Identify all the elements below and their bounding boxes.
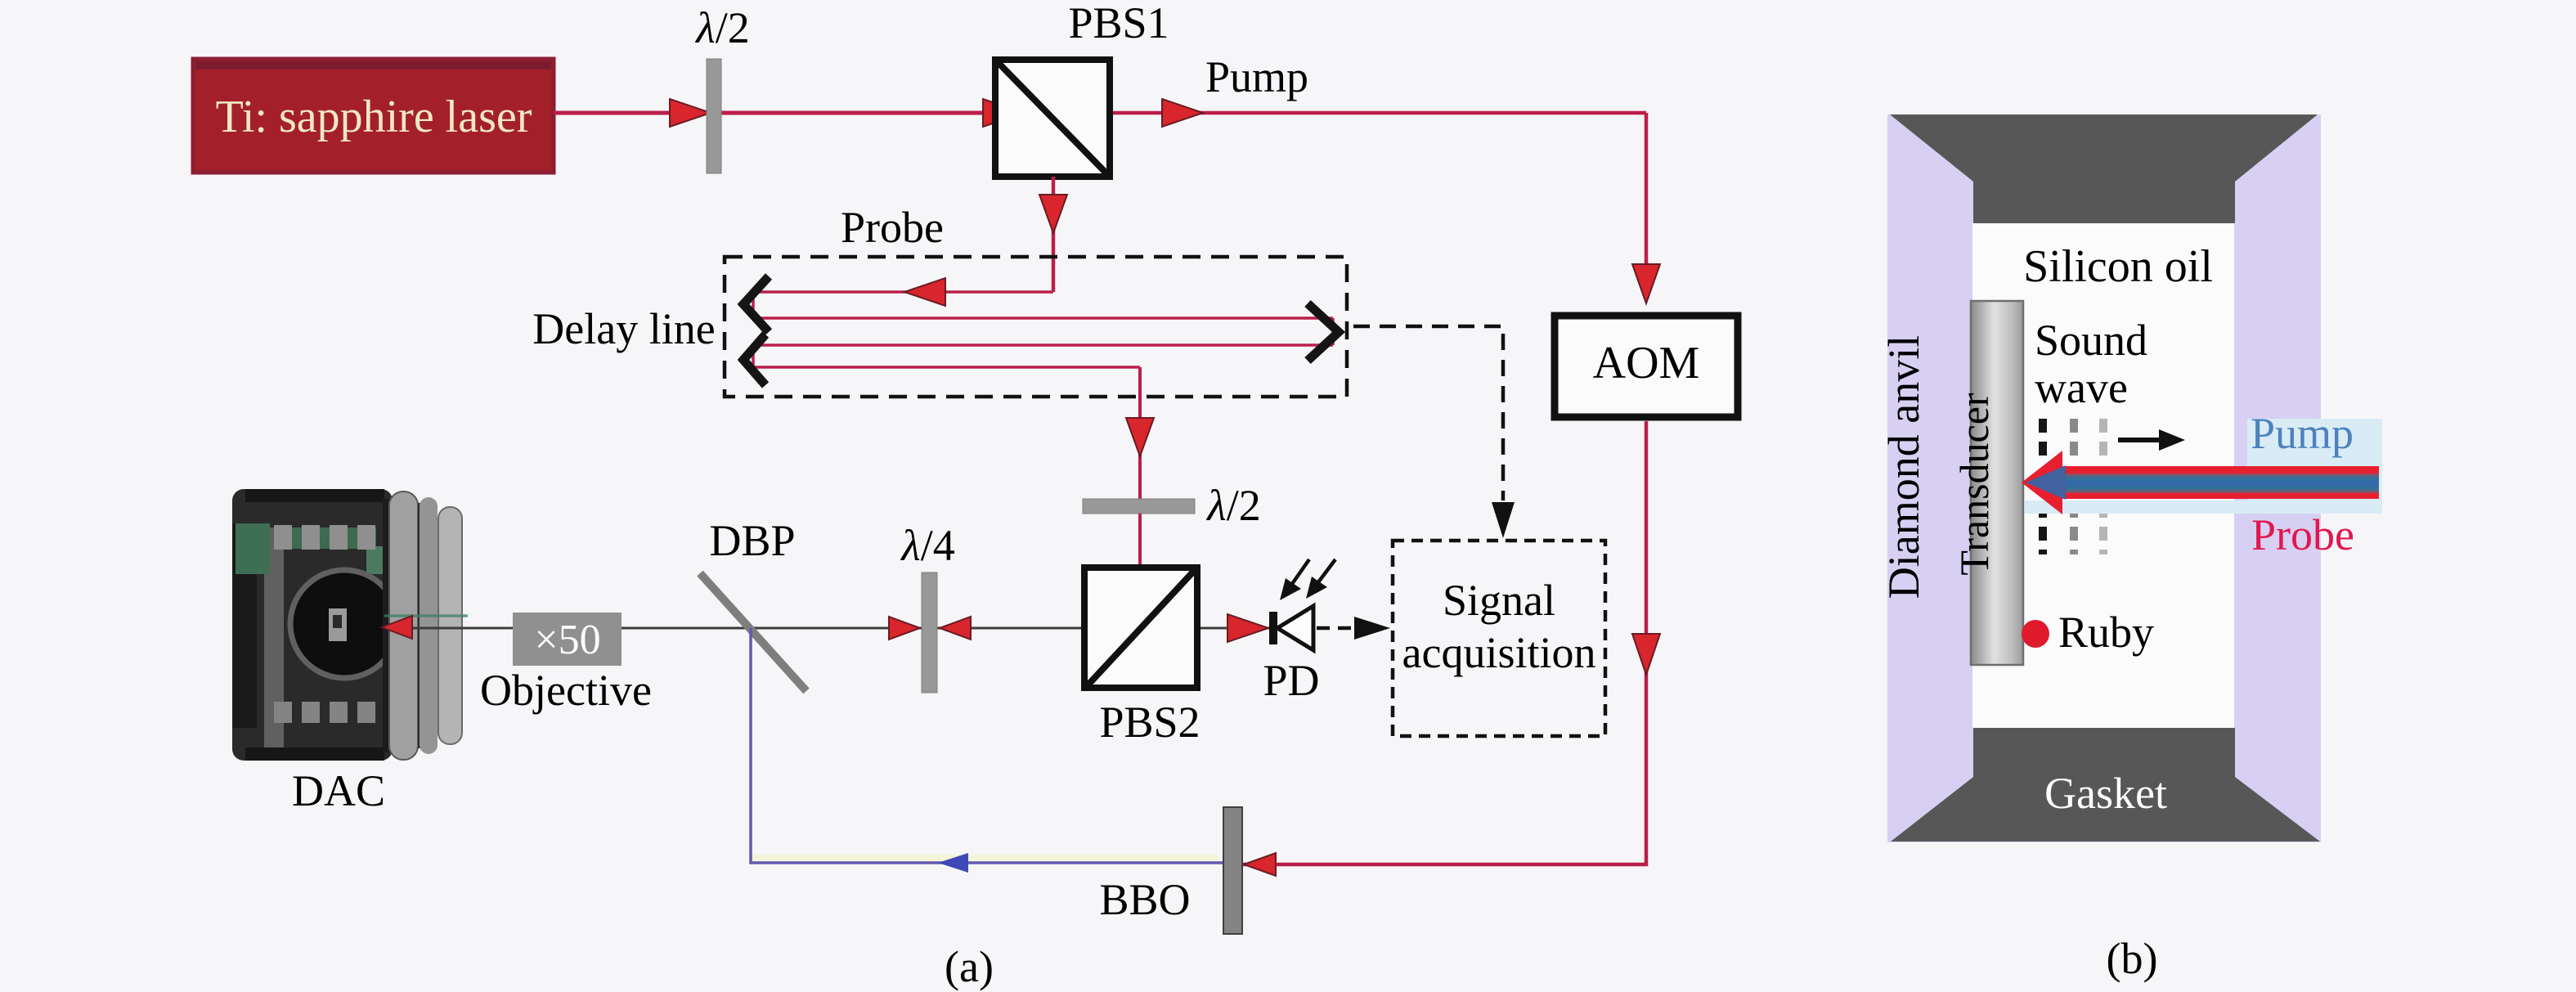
- arrow into signal acquisition top: [1492, 502, 1515, 538]
- svg-text:Diamond anvil: Diamond anvil: [1879, 335, 1928, 599]
- svg-text:PBS1: PBS1: [1068, 0, 1169, 47]
- svg-text:(b): (b): [2107, 934, 2158, 983]
- arrow into BBO: [1244, 853, 1276, 876]
- svg-text:acquisition: acquisition: [1402, 628, 1596, 677]
- diamond anvils backdrop: [1887, 114, 2321, 842]
- svg-text:BBO: BBO: [1099, 875, 1190, 924]
- sound wave dashes column 3: [2099, 419, 2107, 460]
- blue SHG wire DBP to BBO: [751, 628, 1223, 863]
- svg-text:PD: PD: [1263, 656, 1319, 705]
- arrow into λ/4 from right: [940, 617, 971, 640]
- sound wave dashes column 1: [2039, 419, 2047, 460]
- green reflection line on DAC rings: [384, 614, 468, 617]
- pump beam blue: [2061, 474, 2379, 493]
- svg-text:Transducer: Transducer: [1951, 393, 1997, 575]
- svg-text:Delay line: Delay line: [532, 304, 715, 353]
- pump wire down to AOM: [1645, 113, 1649, 278]
- dashed wire PD to signal acquisition: [1317, 626, 1367, 631]
- probe beam pass 2: [753, 316, 1333, 320]
- pale blue strip under beam: [2025, 500, 2247, 514]
- arrow into half-wave plate 1: [670, 99, 711, 127]
- arrow into PBS1: [983, 99, 1024, 127]
- DAC photo: [232, 489, 462, 761]
- delay mirror left 2: [743, 334, 765, 385]
- signal acquisition dashed box: [1393, 541, 1605, 736]
- arrow down after AOM: [1632, 634, 1660, 675]
- arrow into DAC: [382, 616, 412, 639]
- PBS1: [995, 60, 1110, 177]
- arrow into signal acquisition left: [1354, 617, 1390, 640]
- svg-text:λ/2: λ/2: [1205, 481, 1260, 530]
- probe beam pass 1: [753, 290, 1053, 294]
- delay line dashed box: [725, 257, 1347, 397]
- quarter-wave plate λ/4: [922, 572, 937, 693]
- main beam gray left of PBS2: [409, 627, 1081, 630]
- pump wire right of PBS1: [1113, 111, 1646, 115]
- svg-text:Sound: Sound: [2035, 316, 2147, 365]
- svg-text:λ/4: λ/4: [900, 521, 954, 570]
- pale blue glow behind pump label: [2247, 419, 2382, 514]
- bottom gasket dark: [1891, 728, 2320, 842]
- svg-text:DBP: DBP: [709, 516, 795, 565]
- dashed wire delay line to signal acquisition: [1353, 326, 1503, 500]
- BBO crystal: [1223, 807, 1242, 934]
- laser box Ti: sapphire laser: [193, 59, 554, 173]
- probe beam red: [2044, 466, 2379, 499]
- sound direction arrow: [2118, 438, 2164, 442]
- objective x50 box: [513, 613, 622, 666]
- probe wire into PBS2: [1138, 514, 1142, 630]
- svg-text:Silicon oil: Silicon oil: [2023, 241, 2213, 292]
- arrow into λ/4 from left: [889, 617, 920, 640]
- svg-text:Pump: Pump: [2251, 409, 2354, 458]
- arrow pump right: [1162, 99, 1203, 127]
- svg-text:Ti: sapphire laser: Ti: sapphire laser: [216, 92, 532, 142]
- arrow probe exit down: [1126, 418, 1154, 456]
- AOM box: [1555, 316, 1738, 417]
- wire laser to PBS1: [554, 111, 1048, 115]
- main beam gray right of PBS2: [1200, 627, 1269, 630]
- top seat dark: [1890, 114, 2318, 223]
- arrow blue toward DBP: [938, 853, 968, 873]
- svg-text:wave: wave: [2035, 363, 2128, 412]
- svg-text:Probe: Probe: [2251, 510, 2354, 559]
- svg-text:×50: ×50: [534, 617, 600, 663]
- delay mirror left 1: [743, 276, 769, 332]
- svg-text:AOM: AOM: [1593, 338, 1700, 388]
- wire AOM down and left to BBO: [1242, 421, 1646, 864]
- half-wave plate λ/2 second: [1083, 499, 1195, 514]
- probe beam pass 4: [753, 366, 1140, 369]
- probe wire down from PBS1: [1052, 177, 1056, 292]
- arrow into AOM: [1632, 264, 1660, 303]
- sound wave dashes column 2: [2070, 419, 2078, 460]
- probe beam down to λ/2: [1138, 367, 1142, 500]
- beam fold at right mirror: [1331, 318, 1335, 345]
- svg-text:Objective: Objective: [480, 666, 652, 715]
- DBP mirror: [700, 573, 806, 691]
- photodiode PD: [1269, 559, 1335, 650]
- svg-text:Probe: Probe: [841, 203, 944, 252]
- arrow pass 1 left: [904, 278, 945, 306]
- svg-text:λ/2: λ/2: [694, 3, 749, 52]
- half-wave plate λ/2 first: [707, 59, 721, 173]
- svg-text:DAC: DAC: [292, 766, 385, 815]
- beam fold at left mirror 1: [752, 292, 755, 318]
- PBS2: [1084, 568, 1197, 688]
- arrow probe down: [1039, 195, 1067, 233]
- arrow into PD: [1227, 614, 1268, 642]
- svg-text:Ruby: Ruby: [2058, 608, 2154, 657]
- sample chamber: [1972, 223, 2234, 728]
- svg-text:Gasket: Gasket: [2044, 769, 2167, 818]
- svg-text:PBS2: PBS2: [1099, 698, 1200, 747]
- svg-text:Pump: Pump: [1205, 52, 1308, 101]
- ruby dot: [2022, 620, 2049, 648]
- beam fold at left mirror 2: [752, 345, 755, 367]
- SHG pale yellow glow: [752, 855, 1218, 862]
- svg-text:(a): (a): [945, 942, 994, 991]
- svg-text:Signal: Signal: [1443, 576, 1555, 625]
- probe beam pass 3: [753, 343, 1333, 347]
- delay mirror right: [1308, 303, 1339, 361]
